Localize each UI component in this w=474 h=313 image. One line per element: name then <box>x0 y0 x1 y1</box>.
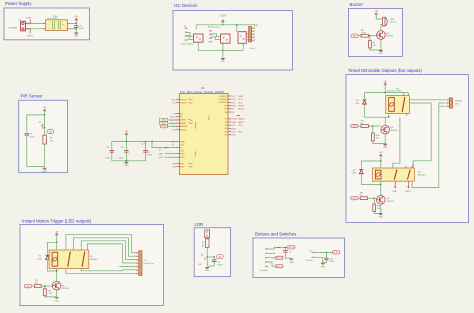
svg-text:GND: GND <box>379 216 384 218</box>
svg-text:C9: C9 <box>289 251 291 253</box>
svg-text:D9: D9 <box>225 109 227 111</box>
wire to left rail and C3 <box>27 115 45 132</box>
svg-text:FAN2: FAN2 <box>238 118 244 121</box>
wire R1 to Q1 gate <box>41 285 52 287</box>
power symbol +5V (motion) <box>56 233 58 235</box>
wire coil bottom to Q4 drain <box>385 117 389 125</box>
MCU right pins <box>228 95 231 97</box>
MCU internal squiggle analog <box>189 119 193 123</box>
svg-text:2N7000: 2N7000 <box>390 130 398 132</box>
svg-text:D1/TXO: D1/TXO <box>180 103 187 105</box>
wire label to R9 <box>358 125 361 127</box>
power symbol +5V (PIR) <box>43 109 45 111</box>
svg-text:A3/INT: A3/INT <box>180 122 187 125</box>
pin cross LDR sense <box>204 258 206 260</box>
net label FAN1 drive <box>351 124 358 127</box>
svg-text:D2: D2 <box>225 135 227 137</box>
wire coil net to D2 <box>361 161 381 169</box>
ground symbol GND (timed bottom) <box>379 213 383 215</box>
svg-text:GND: GND <box>54 301 59 303</box>
power symbol +5V (buzzer) <box>375 13 377 15</box>
MCU left pins group reset <box>177 163 180 165</box>
net label A4 oval <box>161 125 168 128</box>
svg-text:Power Supply: Power Supply <box>5 1 32 6</box>
net label FAN2 drive <box>351 196 358 199</box>
capacitor C9 100nF <box>283 249 287 251</box>
ground symbol GND (MCU caps) <box>124 161 128 163</box>
I2C top power rail wire <box>196 24 237 26</box>
svg-text:Instant Motion Trigger (LED ou: Instant Motion Trigger (LED outputs) <box>22 219 92 224</box>
connector J4 analog meter header <box>209 30 211 32</box>
svg-text:Clock ?: Clock ? <box>250 48 258 50</box>
relay K2 top contact stubs <box>405 166 407 168</box>
wire Q4 source to ground <box>384 134 386 144</box>
svg-text:Buzzer: Buzzer <box>391 22 398 24</box>
svg-text:GPIO: GPIO <box>209 115 211 120</box>
svg-text:GND: GND <box>159 157 164 159</box>
svg-text:SCL: SCL <box>162 123 165 125</box>
wire fan button pin2 to ground <box>315 257 323 262</box>
svg-text:Timed Dimmable Outputs (fan ou: Timed Dimmable Outputs (fan outputs) <box>348 68 422 73</box>
svg-text:D5: D5 <box>225 125 227 127</box>
capacitor C2 10uF <box>111 142 113 151</box>
svg-text:10k: 10k <box>377 208 380 210</box>
svg-text:Fan But: Fan But <box>306 259 313 262</box>
microcontroller IC1 Pro Mini clone socket <box>180 94 229 175</box>
svg-text:10k: 10k <box>49 293 52 295</box>
svg-text:+3.3V: +3.3V <box>219 15 226 18</box>
junction +5V rail split <box>44 114 45 115</box>
wire clock to bottom rail <box>223 43 243 50</box>
ground symbol GND (motion) <box>55 297 59 299</box>
svg-text:I2C Devices: I2C Devices <box>174 3 197 8</box>
svg-text:10uF: 10uF <box>105 157 110 159</box>
svg-text:10uF: 10uF <box>79 28 84 30</box>
net label oval A6 <box>217 255 224 259</box>
svg-text:GND: GND <box>383 147 388 149</box>
resistor R2 10k pulldown <box>44 289 47 296</box>
svg-text:2N7000: 2N7000 <box>387 201 395 203</box>
svg-text:+5V: +5V <box>55 231 59 233</box>
svg-text:GND: GND <box>238 96 243 98</box>
svg-text:GND: GND <box>42 171 47 173</box>
wire cap into net <box>284 247 286 250</box>
svg-text:VCC: VCC <box>180 145 185 147</box>
wire Output1 pin3 long bus to K2 <box>412 106 445 187</box>
wire +5V net to D1 <box>48 242 57 254</box>
svg-text:AB-1M-1C-5 SST: AB-1M-1C-5 SST <box>387 90 403 93</box>
resistor R10 10k pulldown <box>371 133 374 141</box>
svg-text:D0/RXI: D0/RXI <box>180 99 187 101</box>
svg-text:10k: 10k <box>373 45 376 47</box>
wire Q1 source to ground <box>56 290 58 297</box>
svg-text:GND: GND <box>74 36 79 38</box>
svg-text:GND: GND <box>180 153 185 155</box>
svg-text:Buzzer: Buzzer <box>350 2 364 7</box>
net label ENC_SW <box>275 264 283 267</box>
svg-text:10k: 10k <box>376 138 379 140</box>
wire Q2 source to ground <box>380 204 382 214</box>
svg-text:10k: 10k <box>50 140 53 142</box>
wire OLED module to bottom rail <box>198 42 208 50</box>
svg-text:100n: 100n <box>119 157 123 159</box>
resistor R5 divider 10k <box>205 239 209 248</box>
I2C bottom ground rail wire <box>208 49 243 51</box>
wire K3 common contact to Output1 pin1 <box>409 99 445 101</box>
svg-text:HLK-PM01: HLK-PM01 <box>48 18 59 20</box>
MCU left pins group power <box>177 141 180 143</box>
power symbol +5V (timed top) <box>384 83 386 85</box>
svg-text:PIR Sensor: PIR Sensor <box>21 94 44 99</box>
connector Output1 fan output <box>446 99 448 101</box>
clock module symbol <box>238 32 246 44</box>
wire fan button pin1 to net <box>315 251 333 253</box>
svg-text:10uF: 10uF <box>147 154 152 156</box>
svg-text:100nF: 100nF <box>218 265 224 267</box>
wire rail to GND symbol <box>125 161 127 162</box>
svg-text:PD2: PD2 <box>26 286 29 288</box>
ground symbol GND (buzzer) <box>379 50 383 52</box>
svg-text:D13/SCK: D13/SCK <box>219 96 228 98</box>
ground symbol GND (timed top) <box>383 143 387 145</box>
svg-text:AB-1M-X: AB-1M-X <box>418 173 426 176</box>
svg-text:GND: GND <box>180 157 185 159</box>
capacitor C4 100nF <box>126 141 127 142</box>
wire pin4 <box>267 262 275 266</box>
svg-text:LINE: LINE <box>392 191 397 193</box>
svg-text:LDR: LDR <box>198 264 202 266</box>
ground symbol GND (encoder) <box>290 258 294 260</box>
svg-text:Analog: Analog <box>194 122 197 128</box>
relay K2 NEUT pin <box>407 181 409 187</box>
svg-text:D12/MISO: D12/MISO <box>218 99 227 101</box>
wire D1 to coil bottom net <box>48 260 57 271</box>
svg-text:220 PWR: 220 PWR <box>8 27 17 29</box>
svg-text:ENC: ENC <box>231 106 236 108</box>
wire C3 to ground rail <box>26 135 28 166</box>
svg-text:+3.3V: +3.3V <box>141 144 147 146</box>
svg-text:+5V: +5V <box>379 152 383 154</box>
wire R8 to Q2 gate <box>368 197 377 199</box>
wire junction to C8 <box>207 256 214 258</box>
transistor Q1 2N7000 <box>52 281 61 290</box>
wire label to R6 <box>358 35 361 37</box>
wire +5V to K2 coil <box>380 156 382 168</box>
svg-text:Output1: Output1 <box>455 100 463 103</box>
junction on NEUT wire <box>30 28 31 29</box>
wire C9 to ground <box>285 252 291 258</box>
net label buzzer drive <box>351 34 358 37</box>
wire rail down to meter module <box>236 25 238 32</box>
svg-text:AB-1M-X: AB-1M-X <box>90 258 98 261</box>
wire +5V to K1 coil <box>56 235 58 250</box>
svg-text:+5V: +5V <box>374 11 378 13</box>
capacitor C3 0.1uF <box>25 133 29 135</box>
svg-text:RX_1: RX_1 <box>172 99 177 101</box>
relay K3 AB-1M-1C-5 <box>386 95 410 113</box>
wire J6 top pin to rail <box>237 25 255 27</box>
connector J8 LDR input <box>205 230 210 238</box>
svg-text:A4/SDA: A4/SDA <box>180 125 187 128</box>
wire junction down to R4 <box>44 128 46 135</box>
svg-text:RAW: RAW <box>180 140 185 143</box>
svg-text:0.1uF: 0.1uF <box>29 137 35 139</box>
svg-text:FAN1: FAN1 <box>238 121 244 124</box>
transistor Q3 2N7000 <box>377 31 386 40</box>
blue mark right side <box>237 115 241 117</box>
power symbol +5V (MCU) <box>125 133 127 135</box>
svg-text:TX_1: TX_1 <box>172 103 177 105</box>
wire D2 to coil bottom <box>361 174 381 184</box>
svg-text:Encoder: Encoder <box>260 269 268 272</box>
svg-text:ENC_B: ENC_B <box>276 258 283 260</box>
wire second rail to 5V pin <box>152 142 177 148</box>
wire J1 to PS1 pin1 <box>28 23 45 25</box>
diode D2 4148 flyback <box>359 170 363 174</box>
svg-text:+5V: +5V <box>383 81 387 83</box>
net label motion drive <box>24 284 32 287</box>
connector J3 OLED display header <box>185 28 187 30</box>
svg-text:A6: A6 <box>201 254 203 257</box>
svg-text:A0: A0 <box>180 112 182 115</box>
ground symbol GND (PIR) <box>43 167 47 169</box>
wire C1 to ground <box>75 27 77 32</box>
wire R11 connections <box>373 198 375 204</box>
section frame: Buzzer <box>349 9 403 57</box>
relay K1 AB-1M-X dual pole <box>49 250 89 268</box>
svg-text:CLK: CLK <box>231 99 236 101</box>
net label FAN_BUT <box>333 251 340 254</box>
svg-text:D8: D8 <box>225 112 227 114</box>
wire OLED pins to module <box>186 32 193 36</box>
wire pin3 <box>267 257 275 259</box>
svg-text:D11/MOSI: D11/MOSI <box>219 102 228 104</box>
ground symbol GND (LDR) <box>205 266 209 268</box>
svg-text:A2/INT: A2/INT <box>180 119 187 122</box>
connector SW1 rotary encoder <box>265 248 267 250</box>
svg-text:LDR: LDR <box>173 113 177 115</box>
buzzer BZ1 <box>383 17 385 26</box>
svg-text:Analog_meter: Analog_meter <box>208 25 221 28</box>
svg-text:F_BT: F_BT <box>334 252 338 254</box>
transistor Q2 2N7000 <box>377 196 386 205</box>
wire R5 to divider junction and ground <box>206 247 208 266</box>
svg-text:ENC_A: ENC_A <box>288 246 295 249</box>
wire +5V to rail <box>125 135 127 142</box>
svg-text:GND: GND <box>124 165 129 167</box>
svg-text:GND: GND <box>205 270 210 272</box>
section frame: Power Supply <box>4 8 90 40</box>
svg-text:A6: A6 <box>219 256 221 259</box>
OLED display module symbol <box>194 34 203 42</box>
connector J1 (220V input) <box>21 21 26 31</box>
power module PS1 HLK-PM01 <box>46 20 68 31</box>
junction divider output <box>207 256 208 257</box>
ground symbol GND (fan button) <box>321 262 325 264</box>
wire R7 bottom to source net <box>370 48 381 50</box>
MCU bottom ground rail wire <box>112 160 146 162</box>
svg-text:MISO: MISO <box>238 106 244 108</box>
svg-text:LDR: LDR <box>195 222 204 227</box>
svg-text:SDA: SDA <box>231 121 236 124</box>
connector J5 instant trigger outputs <box>136 252 138 254</box>
wire K3 bus down to K2 pin <box>393 117 400 168</box>
svg-text:VCC: VCC <box>238 99 243 101</box>
MCU internal squiggle reset <box>189 163 193 167</box>
svg-text:100R: 100R <box>361 33 366 35</box>
wire R2 connections <box>44 286 46 289</box>
svg-text:R5 10k: R5 10k <box>203 241 205 247</box>
wire K1 coil bottom to Q1 drain <box>56 268 58 281</box>
wire K3 NO contact down bus <box>409 103 431 168</box>
wire R7 top to gate net <box>369 36 371 41</box>
svg-text:PD3: PD3 <box>353 35 356 37</box>
svg-text:A5/SCL: A5/SCL <box>180 128 187 131</box>
wire +5V to buzzer <box>376 14 382 19</box>
connector J2 pin crosses <box>42 124 44 126</box>
svg-text:2N7000: 2N7000 <box>386 36 394 38</box>
MCU left pins group serial <box>177 99 180 101</box>
svg-text:D7: D7 <box>225 119 227 121</box>
wire Output1 pin2 bus <box>439 103 445 106</box>
wire label to R8 <box>358 197 360 199</box>
wire C10 bottom to ground <box>323 260 327 263</box>
transistor Q4 2N7000 <box>381 125 390 134</box>
section frame: Instant Motion Trigger (LED outputs) <box>20 225 164 306</box>
relay K3 contact pins <box>403 93 405 95</box>
ground rail wire (PIR) <box>27 166 45 168</box>
resistor R9 1k0 <box>361 125 368 128</box>
svg-text:NEUT: NEUT <box>27 36 33 38</box>
wire R6 to Q3 gate <box>368 35 376 37</box>
wire J8 to R5 <box>206 238 208 239</box>
resistor R1 1k0 <box>34 285 41 288</box>
wire GND pins to MCU <box>165 153 177 155</box>
resistor R8 1k0 <box>360 197 367 200</box>
svg-text:ENC_A: ENC_A <box>170 116 177 119</box>
svg-text:D6: D6 <box>225 122 227 124</box>
svg-text:Power: Power <box>195 150 197 156</box>
section frame: Timed Dimmable Outputs (fan outputs) <box>346 75 469 223</box>
relay K1 contact top pins wires to J5 <box>66 235 132 253</box>
junction at C1 top <box>76 23 77 24</box>
wire buzzer to Q3 drain <box>381 24 383 30</box>
wire rail down to OLED module <box>195 25 197 30</box>
relay K2 AB-1M-X dual pole <box>372 168 414 181</box>
wire +5V rail to relay K3 <box>384 84 386 92</box>
wire meter module to bottom rail <box>222 42 224 58</box>
ground symbol GND (power supply) <box>74 32 78 34</box>
net label ENC_B <box>275 256 283 259</box>
capacitor C5 10uF <box>145 141 146 142</box>
junction on LINE wire <box>30 23 31 24</box>
svg-text:GND: GND <box>221 61 226 63</box>
svg-text:GND: GND <box>289 262 294 264</box>
svg-text:SCK: SCK <box>238 102 243 104</box>
diode D1 4148 flyback <box>46 256 50 260</box>
svg-text:100nF: 100nF <box>329 261 335 263</box>
svg-text:GND: GND <box>321 267 326 269</box>
svg-text:+5V: +5V <box>74 16 78 18</box>
net label SCL boxed <box>160 122 168 125</box>
svg-text:D3: D3 <box>225 131 227 133</box>
section frame: I2C Devices <box>173 11 293 71</box>
wire label to R1 <box>32 285 35 287</box>
svg-text:MOSI: MOSI <box>238 109 244 111</box>
svg-text:NEUT: NEUT <box>405 191 411 193</box>
svg-text:+5V: +5V <box>125 131 129 133</box>
capacitor C10 100nF <box>325 252 327 257</box>
section frame: Buttons and Switches <box>253 238 345 278</box>
svg-text:D4: D4 <box>225 128 227 130</box>
resistor R6 100R <box>361 34 368 37</box>
relay K2 LINE pin <box>394 181 396 187</box>
resistor R4 10k pulldown <box>43 135 46 144</box>
net label SDA boxed <box>160 118 168 121</box>
svg-text:A1: A1 <box>180 116 182 119</box>
wire K2 coil bottom to Q2 drain <box>380 181 382 195</box>
MCU top power rail wire <box>112 141 177 143</box>
MCU left pins group analog <box>177 113 180 115</box>
ground symbol GND (I2C) <box>221 58 225 60</box>
wire encoder pin B to label <box>267 252 275 254</box>
wire +3.3V to top rail <box>222 22 224 25</box>
svg-text:OLED display: OLED display <box>181 43 195 45</box>
resistor R11 10k pulldown <box>373 204 376 211</box>
MCU internal squiggle serial <box>189 99 193 103</box>
svg-text:+5V: +5V <box>43 107 47 109</box>
wire +5V node down to C1 <box>75 24 77 26</box>
analog meter module symbol <box>221 34 230 43</box>
wire meter pins to module <box>211 34 221 37</box>
power symbol +5V (timed bottom) <box>380 154 382 156</box>
resistor R7 10k pulldown <box>369 41 372 48</box>
power symbol +5V <box>75 18 77 20</box>
section frame: LDR <box>194 228 230 277</box>
svg-text:J9: J9 <box>310 251 312 253</box>
svg-text:BUZ: BUZ <box>231 128 236 130</box>
wire PS1 neutral to ground node <box>70 28 77 30</box>
wire encoder pin A to label <box>267 247 285 249</box>
wire PS1 output to +5V node <box>70 23 77 25</box>
svg-text:GND: GND <box>379 53 384 55</box>
relay K3 coil bottom pin wire <box>388 114 390 118</box>
wire +5V stem <box>44 111 46 128</box>
capacitor C1 10uF <box>74 25 78 27</box>
wire R10 connections <box>372 126 374 133</box>
svg-text:Instant Trig: Instant Trig <box>144 262 154 265</box>
capacitor C8 100nF <box>213 257 215 260</box>
wire J5 rows <box>132 252 136 254</box>
wire D3 to coil bottom net <box>365 104 389 117</box>
wire R4 to ground rail <box>44 144 46 167</box>
wire C8 to ground rail <box>207 262 214 267</box>
wire Q3 source to ground <box>380 39 382 50</box>
svg-text:PD5: PD5 <box>353 126 356 128</box>
connector J6 clock header <box>253 27 255 29</box>
wire clock module pins to J6 <box>246 33 252 35</box>
wire J1 to PS1 pin2 <box>28 28 45 30</box>
wire K1 bottom contacts to J5 <box>81 268 122 270</box>
svg-text:ENC_S: ENC_S <box>276 266 283 268</box>
svg-text:PD6: PD6 <box>353 198 356 200</box>
diode D3 4148 flyback <box>363 100 367 104</box>
wire K2 right contact jog <box>412 161 413 166</box>
svg-text:GND: GND <box>159 153 164 155</box>
net label ENC_A <box>287 246 295 249</box>
svg-text:LINE: LINE <box>26 17 31 19</box>
wire R9 to Q4 gate <box>368 125 380 127</box>
